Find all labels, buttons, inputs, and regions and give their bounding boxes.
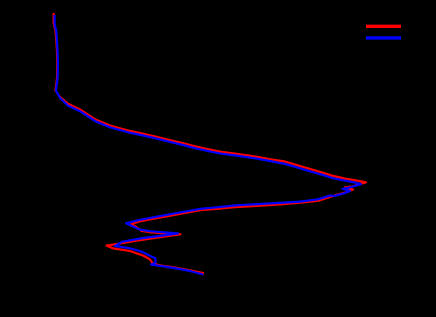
curve blue (profile) xyxy=(55,15,361,275)
legend blue line xyxy=(366,36,401,39)
legend red line xyxy=(366,25,401,28)
curve red (profile) xyxy=(54,13,366,273)
